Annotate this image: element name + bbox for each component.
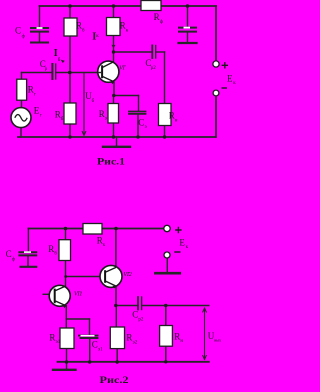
- svg-text:э1: э1: [56, 340, 61, 345]
- svg-text:C: C: [15, 25, 21, 35]
- svg-text:VT2: VT2: [123, 272, 131, 278]
- svg-text:E: E: [227, 74, 233, 84]
- svg-text:г: г: [34, 92, 36, 97]
- svg-text:R: R: [174, 331, 180, 341]
- svg-text:E: E: [179, 238, 185, 248]
- svg-text:б: б: [61, 117, 64, 122]
- svg-text:R: R: [154, 12, 160, 22]
- svg-text:б: б: [58, 58, 61, 63]
- svg-text:р2: р2: [138, 318, 144, 323]
- svg-text:э1: э1: [98, 348, 103, 353]
- svg-text:C: C: [6, 249, 12, 259]
- svg-text:б: б: [92, 99, 95, 104]
- svg-text:Рис.1: Рис.1: [97, 158, 125, 168]
- svg-text:R: R: [120, 21, 126, 31]
- svg-text:C: C: [132, 310, 138, 320]
- svg-text:э: э: [105, 117, 107, 122]
- svg-text:н: н: [175, 118, 178, 123]
- svg-text:C: C: [138, 117, 144, 127]
- svg-text:VT1: VT1: [74, 291, 82, 297]
- svg-text:н: н: [180, 339, 183, 344]
- svg-text:вых: вых: [214, 338, 222, 343]
- svg-text:R: R: [49, 332, 55, 342]
- svg-text:р2: р2: [151, 66, 157, 71]
- svg-text:Рис.2: Рис.2: [100, 376, 129, 386]
- svg-text:г: г: [40, 113, 42, 118]
- svg-text:б: б: [54, 252, 57, 257]
- svg-text:R: R: [126, 333, 132, 343]
- svg-text:э2: э2: [133, 340, 138, 345]
- svg-text:э: э: [145, 125, 147, 130]
- svg-text:R: R: [48, 244, 54, 254]
- svg-text:C: C: [92, 340, 98, 350]
